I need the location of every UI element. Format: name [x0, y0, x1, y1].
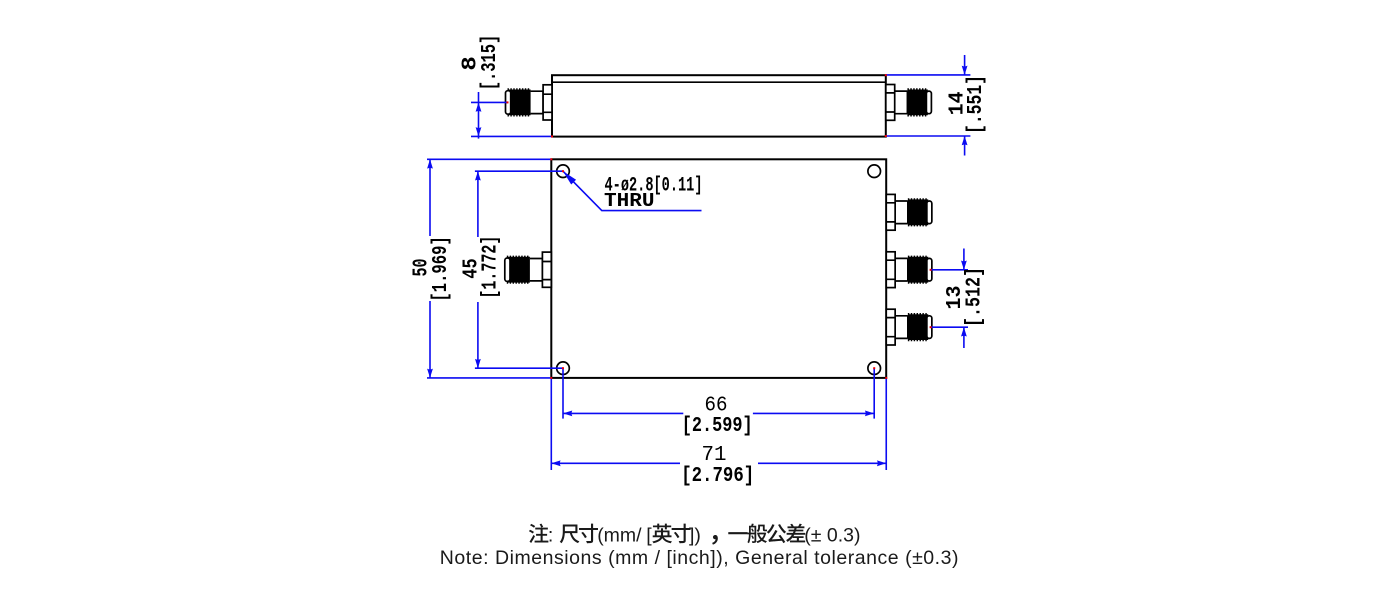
top view left SMA connector [506, 85, 553, 120]
mounting hole bottom-right [868, 362, 881, 375]
top view lid edge line [552, 81, 886, 83]
top view body [552, 75, 886, 136]
front view output SMA connector J2 [886, 194, 932, 230]
dimension 50 [1.969] [409, 159, 551, 378]
svg-text:[2.796]: [2.796] [681, 465, 754, 488]
front view output SMA connector J4 [886, 309, 932, 345]
svg-text:Note: Dimensions (mm / [inch]): Note: Dimensions (mm / [inch]), General … [440, 547, 959, 569]
dimension 14 [.551] [886, 55, 988, 156]
svg-text:[2.599]: [2.599] [682, 415, 753, 438]
svg-text:(± 0.3): (± 0.3) [804, 524, 860, 546]
svg-text:[: [ [646, 524, 652, 546]
mounting hole top-left [557, 165, 570, 178]
dimension 66 [2.599] [563, 368, 874, 438]
dimension 45 [1.772] [459, 171, 563, 368]
mounting hole bottom-left [557, 362, 570, 375]
dimension 13 [.512] [931, 249, 987, 349]
svg-text:(mm/: (mm/ [597, 524, 642, 546]
svg-text:[.551]: [.551] [964, 75, 988, 134]
svg-text:[.512]: [.512] [962, 267, 986, 327]
svg-text:]): ]) [689, 524, 701, 546]
svg-text::: : [548, 524, 553, 546]
svg-text:[1.772]: [1.772] [478, 236, 502, 299]
dimension 71 [2.796] [551, 378, 886, 488]
dimension 8 [.315] [458, 35, 552, 139]
mounting hole top-right [868, 165, 881, 178]
svg-text:[.315]: [.315] [478, 35, 502, 91]
front view input SMA connector J1 [505, 252, 552, 287]
front view output SMA connector J3 [886, 252, 932, 288]
note line 1 (Chinese) [529, 524, 861, 547]
front view body [551, 159, 886, 378]
svg-text:THRU: THRU [604, 190, 655, 212]
hole callout leader 4-ø2.8 THRU [563, 171, 703, 212]
top view right SMA connector [886, 85, 932, 121]
svg-text:[1.969]: [1.969] [429, 236, 453, 301]
red endpoint markers [507, 74, 932, 379]
svg-text:71: 71 [702, 444, 727, 467]
